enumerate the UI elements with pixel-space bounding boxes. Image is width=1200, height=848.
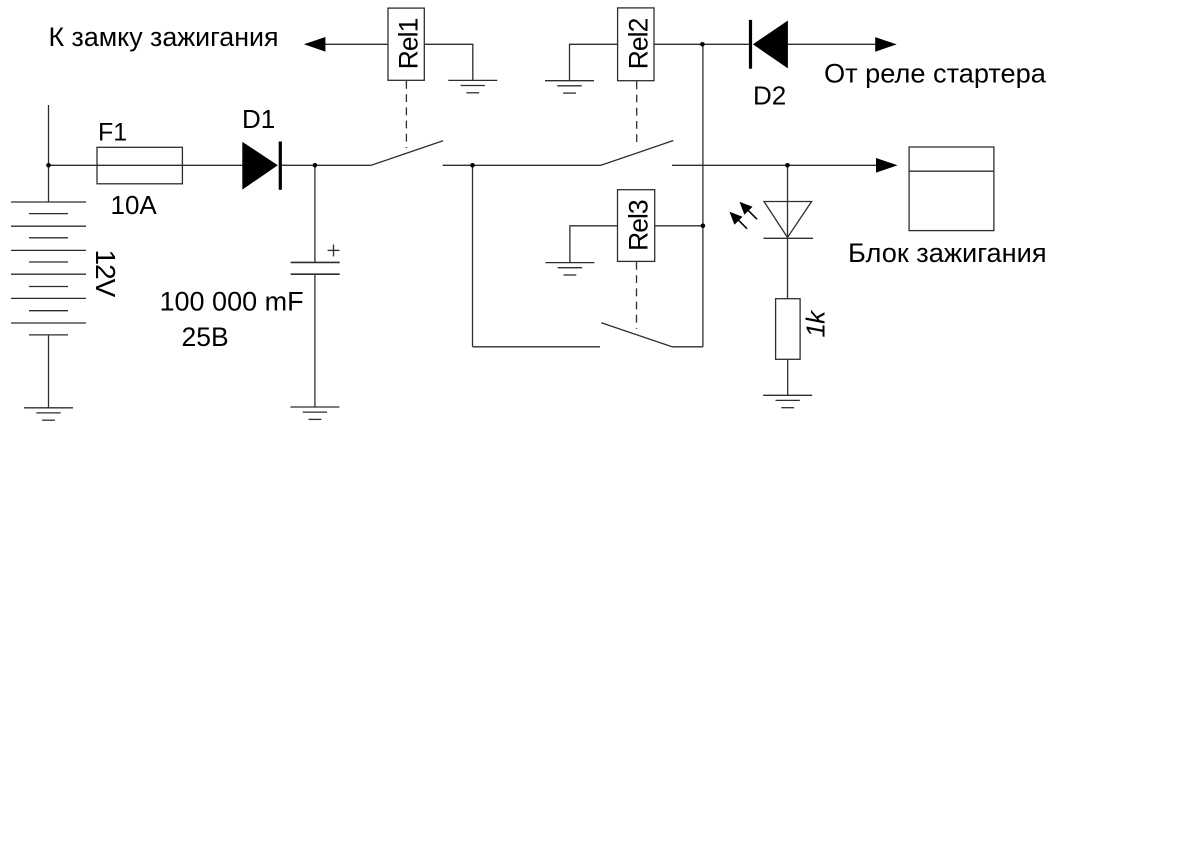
fuse F1 bbox=[97, 147, 182, 184]
LED arrow upper bbox=[740, 202, 758, 219]
wire resistor to ground bbox=[787, 359, 789, 395]
svg-text:D1: D1 bbox=[242, 104, 275, 134]
wire bottom rail right bbox=[672, 346, 703, 348]
wire battery bottom to ground bbox=[48, 335, 50, 408]
switch contact Rel2 blade bbox=[601, 141, 673, 166]
node LED junction bbox=[785, 163, 790, 168]
LED arrow lower bbox=[730, 212, 748, 229]
capacitor C1 plates bbox=[291, 262, 340, 274]
wire capacitor top lead bbox=[314, 165, 316, 262]
svg-text:1k: 1k bbox=[801, 309, 831, 338]
wire switch2 to right arrow bbox=[672, 164, 876, 166]
ground Rel3 bbox=[545, 263, 594, 275]
ground battery bbox=[24, 408, 73, 420]
node A junction bbox=[700, 42, 705, 47]
svg-text:10A: 10A bbox=[111, 190, 158, 220]
ground Rel2 bbox=[545, 81, 594, 93]
svg-text:От реле стартера: От реле стартера bbox=[824, 58, 1047, 89]
svg-text:Блок зажигания: Блок зажигания bbox=[848, 237, 1047, 268]
node battery junction bbox=[46, 163, 51, 168]
wire Rel2 to D2 bbox=[654, 43, 750, 45]
wire Rel3 left to ground bbox=[570, 226, 618, 263]
wire node A vertical long drop bbox=[702, 44, 704, 347]
svg-text:К замку зажигания: К замку зажигания bbox=[49, 22, 279, 52]
svg-text:Rel1: Rel1 bbox=[394, 18, 424, 69]
dashed link Rel2 bbox=[636, 81, 638, 143]
wire capacitor bottom lead bbox=[314, 274, 316, 407]
ignition block box bbox=[909, 147, 994, 231]
arrow to ignition block bbox=[876, 158, 898, 173]
wire LED to resistor bbox=[787, 238, 789, 298]
relay Rel3 box bbox=[618, 190, 655, 262]
capacitor plus sign bbox=[328, 245, 340, 257]
ground Rel1 bbox=[448, 80, 497, 92]
relay Rel2 box bbox=[618, 8, 654, 81]
wire battery top stub bbox=[48, 105, 50, 202]
wire bottom rail left bbox=[473, 346, 601, 348]
dashed link Rel3 bbox=[636, 262, 638, 329]
wire top rail left arrow segment bbox=[324, 43, 388, 45]
resistor R1 bbox=[776, 299, 801, 360]
svg-text:D2: D2 bbox=[753, 81, 786, 111]
svg-text:Rel2: Rel2 bbox=[624, 18, 654, 69]
LED D3 triangle bbox=[764, 202, 814, 239]
wire D2 to right arrow bbox=[788, 43, 877, 45]
wire LED top lead bbox=[787, 165, 789, 238]
node C junction bbox=[701, 224, 706, 229]
wire node B to switch2 bbox=[473, 164, 602, 166]
diode D1 bbox=[242, 142, 280, 190]
svg-text:25В: 25В bbox=[182, 322, 229, 352]
wire switch1 to node B bbox=[443, 164, 473, 166]
diode D2 bbox=[751, 20, 788, 69]
dashed link Rel1 bbox=[405, 81, 407, 148]
wire Rel1 right to ground corner bbox=[424, 44, 473, 80]
wire Rel2 ground riser bbox=[570, 44, 618, 80]
wire Rel3 right to node C bbox=[655, 225, 703, 227]
svg-text:F1: F1 bbox=[98, 119, 127, 147]
relay Rel1 box bbox=[388, 8, 424, 80]
ground resistor bbox=[763, 395, 812, 407]
switch contact Rel3 blade bbox=[601, 323, 672, 347]
node B junction bbox=[470, 163, 475, 168]
switch contact Rel1 blade bbox=[371, 141, 443, 166]
battery B1 plates bbox=[11, 202, 86, 335]
svg-text:Rel3: Rel3 bbox=[624, 200, 654, 251]
ground capacitor bbox=[290, 407, 339, 419]
wire D1 to switch1 bbox=[282, 164, 371, 166]
wire main rail battery to D1 bbox=[49, 164, 244, 166]
svg-text:100 000 mF: 100 000 mF bbox=[160, 287, 304, 317]
wire node B vertical drop bbox=[472, 165, 474, 346]
svg-text:12V: 12V bbox=[90, 250, 121, 298]
node main-D1 junction bbox=[313, 163, 318, 168]
arrow left to ignition lock bbox=[304, 37, 326, 52]
arrow from starter relay bbox=[875, 37, 897, 52]
